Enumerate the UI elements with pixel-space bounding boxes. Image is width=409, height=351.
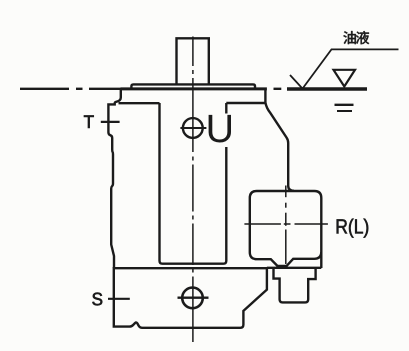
left wall — [108, 89, 120, 268]
S port tick — [108, 298, 130, 300]
flange thick top line — [121, 87, 267, 90]
bottom circle bar — [178, 297, 209, 299]
main vertical centerline — [192, 37, 194, 343]
fitting below block — [274, 268, 316, 303]
flange top plate — [131, 84, 255, 88]
right wall — [265, 103, 294, 191]
label S — [92, 293, 102, 306]
bottom block — [114, 268, 267, 328]
level symbol equal lines — [335, 104, 354, 106]
label R(L) — [337, 219, 347, 233]
body top face left segment — [119, 102, 160, 104]
cylinder right edge upper — [225, 103, 227, 114]
body top face right segment — [226, 102, 265, 104]
level symbol triangle — [334, 70, 356, 87]
fitting top edge — [267, 267, 321, 269]
top circle port — [183, 118, 203, 138]
oil level dash-dot line left — [20, 88, 281, 90]
cylinder — [160, 103, 227, 264]
R(L) block outline — [250, 191, 321, 266]
bottom circle port — [182, 288, 203, 309]
flange base right edge — [264, 89, 266, 103]
leader line with check mark — [290, 49, 399, 88]
U label glyph — [209, 115, 231, 143]
block horizontal centerline — [244, 223, 328, 225]
shaft — [177, 38, 209, 84]
liquid surface thick line — [287, 87, 367, 90]
block vertical centerline — [285, 186, 287, 265]
R(L) block right edge extension — [320, 252, 322, 268]
label 油液 — [343, 31, 356, 44]
top circle bar — [180, 127, 206, 129]
T port tick — [101, 121, 120, 123]
label T — [84, 116, 94, 128]
